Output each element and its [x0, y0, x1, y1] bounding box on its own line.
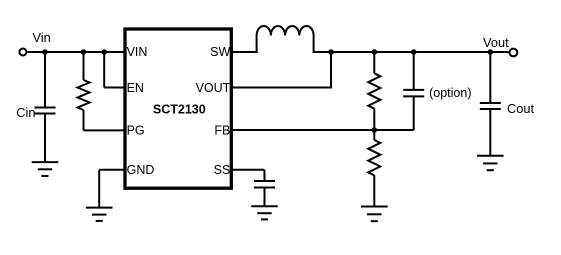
node junction dot (R2 top) [372, 49, 378, 55]
svg-text:VIN: VIN [127, 45, 148, 59]
wire FB line (FB pin to divider and option cap) [231, 129, 414, 131]
op-amp U1 SCT2130 (IC body) [125, 29, 231, 188]
node junction dot (inductor output / VOUT sense) [328, 49, 334, 55]
wire Vin rail to VIN pin [27, 51, 126, 53]
svg-text:Cout: Cout [507, 101, 534, 116]
terminal Vout (output port circle) [510, 49, 518, 57]
resistor R2 (upper feedback) [368, 52, 380, 130]
svg-text:Vout: Vout [483, 35, 509, 50]
svg-text:PG: PG [127, 123, 145, 137]
ground (below soft-start cap) [251, 206, 278, 219]
svg-text:Vin: Vin [33, 30, 51, 45]
node junction dot (R1 tap) [81, 49, 87, 55]
wire VOUT pin sense to output rail [231, 52, 331, 89]
node junction dot (EN tap) [101, 49, 107, 55]
capacitor C3 soft-start [254, 181, 275, 206]
ground (below Cin) [32, 162, 59, 176]
svg-text:Cin: Cin [16, 105, 35, 120]
ground (GND pin) [86, 208, 113, 221]
wire EN tie to VIN rail [104, 52, 126, 88]
resistor R1 (VIN to PG pull-up) [78, 52, 90, 130]
capacitor C2 feed-forward (option) [403, 52, 424, 130]
node junction dot (Cout top) [488, 49, 494, 55]
wire output rail (inductor to Vout terminal) [314, 51, 509, 53]
capacitor Cout [480, 52, 501, 155]
svg-text:SW: SW [210, 45, 230, 59]
svg-text:FB: FB [214, 124, 230, 138]
inductor L1 [257, 26, 314, 53]
resistor R3 (lower feedback) [368, 130, 380, 206]
wire GND pin to ground [99, 170, 126, 207]
node junction dot (Cin tap) [42, 49, 48, 55]
wire R1 bottom to PG pin [84, 129, 127, 131]
node junction dot (FB divider mid) [372, 127, 378, 133]
node junction dot (option cap top) [411, 49, 417, 55]
svg-text:GND: GND [127, 163, 155, 177]
capacitor Cin [35, 52, 56, 162]
svg-text:(option): (option) [429, 86, 471, 100]
ground (below Cout) [477, 156, 504, 171]
svg-text:SS: SS [214, 163, 231, 177]
svg-text:VOUT: VOUT [196, 81, 231, 95]
wire SS pin to soft-start cap [231, 170, 265, 181]
terminal Vin (input port circle) [19, 49, 26, 56]
svg-text:EN: EN [127, 81, 144, 95]
ground (below R3) [361, 207, 388, 222]
wire SW pin to inductor [231, 51, 258, 53]
svg-text:SCT2130: SCT2130 [153, 103, 206, 117]
